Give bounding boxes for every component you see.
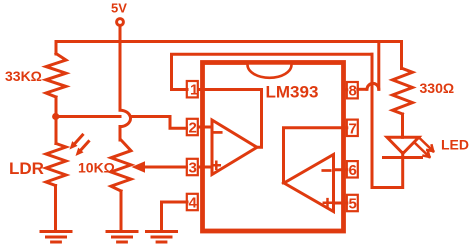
- ground pin4: [147, 232, 177, 243]
- LED emission arrow 1: [420, 138, 434, 151]
- svg-text:LED: LED: [441, 137, 469, 153]
- wire node to pin2: [56, 117, 187, 129]
- LED cathode bar: [384, 156, 422, 159]
- pin5 stub: [334, 202, 347, 205]
- comparator A minus: [213, 131, 221, 134]
- pin 5 box: [347, 195, 358, 211]
- LDR light arrow 2: [80, 142, 89, 152]
- LED emission arrow 2: [416, 144, 430, 157]
- svg-text:7: 7: [349, 120, 357, 137]
- wire pin8 vertical to rail: [377, 42, 380, 90]
- pin 7 box: [347, 120, 358, 136]
- svg-text:10KΩ: 10KΩ: [78, 160, 115, 176]
- wire hop over output column: [367, 83, 379, 89]
- photoresistor LDR zigzag: [46, 144, 66, 186]
- pin7 stub: [344, 126, 347, 129]
- wire pin8 to 5V: [358, 88, 366, 91]
- op-amp IC U1 LM393 body: [203, 63, 344, 232]
- comparator B minus: [323, 169, 330, 172]
- comparator B plus: [324, 199, 331, 206]
- wire 5V rail: [56, 40, 402, 43]
- pin 2 box: [187, 119, 198, 135]
- resistor 330 zigzag: [393, 69, 413, 115]
- svg-text:5: 5: [349, 196, 357, 213]
- svg-text:1: 1: [190, 82, 198, 99]
- wire 330 to LED: [401, 114, 404, 137]
- svg-text:2: 2: [189, 120, 197, 137]
- wire pot to ground: [120, 191, 123, 231]
- comparator A plus: [213, 162, 220, 169]
- ground LDR: [41, 232, 71, 243]
- wire hop over node wire: [120, 110, 131, 126]
- pin3 stub: [199, 166, 212, 169]
- wire 33K bottom to node: [55, 97, 58, 144]
- wire rail to 330 resistor: [400, 42, 403, 69]
- wire 5V down: [119, 26, 122, 42]
- pin 4 box: [187, 194, 198, 210]
- pin 3 box: [187, 159, 198, 175]
- svg-text:4: 4: [189, 195, 198, 212]
- comparator A triangle: [212, 120, 257, 175]
- svg-text:LDR: LDR: [9, 159, 44, 178]
- pin1 stub: [199, 88, 205, 91]
- pin6 stub: [334, 168, 347, 171]
- wire output column to LED cathode: [372, 54, 403, 187]
- IC notch: [248, 65, 292, 78]
- svg-text:6: 6: [349, 162, 357, 179]
- resistor R1 33K zigzag: [46, 54, 66, 98]
- 5V terminal circle: [117, 19, 124, 26]
- LED D1 triangle: [387, 137, 419, 153]
- ground pot: [107, 232, 137, 243]
- pin 8 box: [347, 82, 358, 98]
- svg-text:5V: 5V: [111, 1, 127, 16]
- wire LDR to ground: [54, 186, 57, 232]
- pin8 stub: [344, 88, 347, 91]
- wire 5V to pot top: [119, 42, 122, 141]
- potentiometer 10K zigzag: [111, 140, 131, 191]
- svg-text:LM393: LM393: [266, 83, 319, 102]
- pin 6 box: [347, 161, 358, 177]
- wire pin1 loop over IC: [172, 54, 373, 89]
- pin 1 box: [187, 81, 198, 97]
- LDR light arrow 1: [74, 135, 83, 145]
- svg-text:33KΩ: 33KΩ: [5, 68, 42, 84]
- svg-text:330Ω: 330Ω: [420, 80, 455, 96]
- pot wiper arrow: [145, 166, 187, 169]
- wire comparator A output to pin1: [205, 90, 262, 148]
- node junction dot: [52, 113, 59, 120]
- svg-text:8: 8: [349, 83, 357, 100]
- wire pin4 to ground: [162, 202, 188, 231]
- wire comparator B output to pin7: [284, 128, 344, 183]
- pin2 stub: [199, 126, 212, 129]
- svg-text:3: 3: [189, 160, 197, 177]
- comparator B triangle: [284, 155, 334, 212]
- wire 33K top lead: [55, 42, 58, 55]
